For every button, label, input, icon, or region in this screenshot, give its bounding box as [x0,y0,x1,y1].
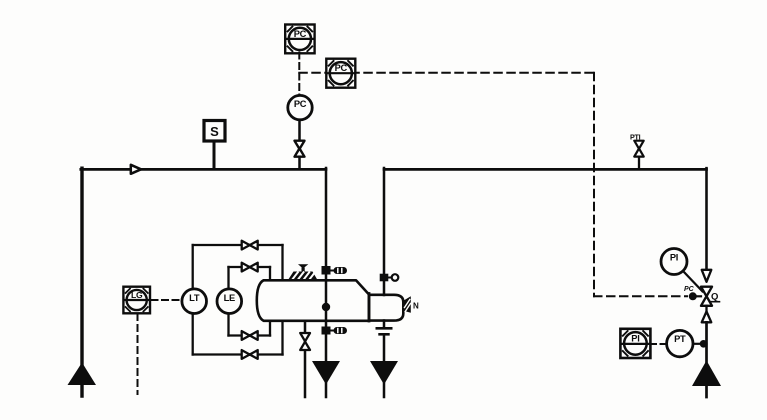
solenoid S stem [213,141,216,169]
LT column [192,245,194,287]
instrument PC (field controller circle) [288,95,312,119]
svg-text:PC: PC [684,286,695,293]
svg-text:PI: PI [631,333,639,343]
actuator node [689,292,697,300]
flow arrow down (boot out) [370,361,398,385]
nozzle N (hatched) [403,296,411,313]
svg-text:PC: PC [335,63,348,73]
flow arrow down (product out) [312,361,340,385]
flow arrow bottom-left (inlet, pointing up) [68,363,97,386]
vent pad with hatch on vessel top [288,264,318,280]
svg-text:LE: LE [224,293,235,303]
svg-text:LT: LT [189,293,200,303]
svg-text:LG: LG [131,290,143,300]
valve (inner top) [242,263,258,272]
LE column [227,267,229,287]
valve (inner bottom) [242,331,258,340]
svg-text:N: N [413,302,419,311]
signal wire PC to PC circle (dashed) [298,53,300,96]
reducer (open triangle up) [702,312,712,323]
control valve body (bowtie) [701,287,712,306]
inlet fitting (flange + coupling) [322,266,331,275]
reducer (open triangle down) [702,270,712,282]
signal dashed vertical right [593,73,595,297]
flow direction arrow on pipe [131,165,141,174]
instrument PI (top right) [661,249,687,275]
drain line with valve below vessel [304,321,307,397]
valve (drain, vertical bowtie) [300,333,310,350]
PTI test valve stem [638,157,640,170]
instrument PC (shared display, top) [285,25,314,54]
instrument LT [182,289,207,314]
valve (outer top, horizontal bowtie) [242,241,258,250]
wire PT to riser [693,343,706,345]
fitting (flange + sample point) [380,274,389,282]
svg-text:Q: Q [711,292,718,303]
instrument LE [217,289,242,314]
wire PI to valve [684,272,703,292]
level bridle outer loop bottom [193,353,283,355]
level bridle inner loop bottom [229,334,271,336]
svg-text:S: S [210,124,219,139]
wire left riser [80,168,83,396]
svg-text:PC: PC [294,99,307,109]
wire PC circle to control valve [298,122,301,142]
level bridle inner loop top [229,266,271,268]
level bridle outer loop top [193,244,283,246]
boot drain with spec break [383,321,386,329]
right riser down [705,168,708,270]
wire valve to reducer [705,306,707,312]
valve (outer bottom) [242,350,258,359]
vessel (separator drum) [257,280,369,321]
flow arrow bottom-right (pointing up) [692,361,721,387]
svg-text:PTI: PTI [630,133,641,142]
wire top-left horizontal pipe [81,168,326,171]
svg-text:PI: PI [670,252,678,262]
control valve (vertical bowtie) below PC [295,141,305,157]
instrument PT [667,330,693,356]
riser continues to bottom [705,322,708,397]
vessel boot (right small section) [369,295,403,321]
signal wire LG down dashed [137,314,139,394]
signal wire LG-LT dashed [152,299,180,301]
signal wire PI-PT dashed [651,343,666,345]
signal dashed to valve actuator [594,295,687,297]
svg-text:PT: PT [674,334,686,344]
outlet fitting below vessel at x=326 [322,327,331,335]
valve PTI (vertical bowtie) [634,141,643,157]
wire vessel inlet drop at x=326 [325,168,328,397]
instrument PI (bottom right, shared display) [620,329,650,358]
vapor outlet riser at x=384 [383,168,386,295]
svg-text:PC: PC [294,29,307,39]
instrument PC (shared display, second) [326,59,355,88]
solenoid S box [204,121,225,142]
signal wire horizontal dashed to right [299,72,594,74]
wire valve to pipe [298,157,301,169]
main overhead pipe right [384,168,707,171]
junction node in vessel [322,303,330,311]
instrument LG (local gauge) [123,287,150,314]
